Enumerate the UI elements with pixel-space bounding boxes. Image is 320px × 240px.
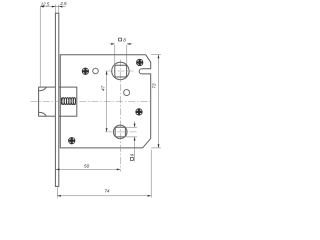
lock body outline <box>60 55 150 148</box>
bottom follower (square 6 WC spindle) <box>113 125 127 139</box>
faceplate <box>55 13 58 186</box>
svg-text:12.5: 12.5 <box>41 2 50 7</box>
dimension 74 extension lines <box>57 150 151 198</box>
bottom follower center line horizontal <box>105 131 137 133</box>
hole circle left <box>93 68 99 74</box>
spring <box>61 98 75 105</box>
arrows 50 <box>56 168 60 170</box>
follower vertical center line <box>119 60 121 172</box>
svg-text:8: 8 <box>123 37 126 42</box>
dimension square-6 line <box>134 121 136 161</box>
arrows square-6 <box>134 124 136 128</box>
svg-text:50: 50 <box>84 163 90 168</box>
faceplate extension stubs <box>55 5 58 13</box>
latch center line <box>31 100 152 102</box>
screw bottom-left <box>68 137 75 144</box>
dimension 12.5/2.5 line <box>40 6 65 8</box>
screw top-left <box>82 68 89 75</box>
arrows square-8 <box>111 43 115 45</box>
label square-6 <box>129 153 134 160</box>
arrow 2.5 <box>59 6 63 8</box>
label square-8 <box>119 38 122 41</box>
dimension 47 line <box>106 71 108 132</box>
arrows 74 <box>57 195 61 197</box>
svg-text:6: 6 <box>129 153 134 156</box>
dimension 73 extension lines <box>151 55 161 148</box>
arrows 47 <box>106 71 108 75</box>
svg-text:2.5: 2.5 <box>59 1 67 6</box>
top follower center line horizontal <box>105 70 133 72</box>
screw top-right <box>136 59 143 66</box>
svg-text:47: 47 <box>101 85 106 91</box>
dimension square-6 extension lines <box>126 127 137 137</box>
latch bolt bevel arc bottom <box>39 112 46 115</box>
screw bottom-right <box>136 109 143 116</box>
arrows 73 <box>158 55 160 59</box>
dimension 12.5 extension line (bolt face) <box>39 7 41 87</box>
dimension 50 line <box>56 168 120 170</box>
top follower (square 8 spindle) <box>112 62 129 79</box>
dimension square-8: extension lines <box>115 45 127 65</box>
dimension 73 line <box>158 55 160 148</box>
svg-text:74: 74 <box>104 188 110 193</box>
svg-text:73: 73 <box>152 83 157 89</box>
dimension 74 line <box>57 195 151 197</box>
latch bolt <box>39 87 77 116</box>
dimension square-8 line <box>110 43 133 45</box>
latch bolt bevel arc top <box>39 87 46 90</box>
hole circle below follower <box>124 90 130 96</box>
arrows 12.5 <box>40 6 44 8</box>
